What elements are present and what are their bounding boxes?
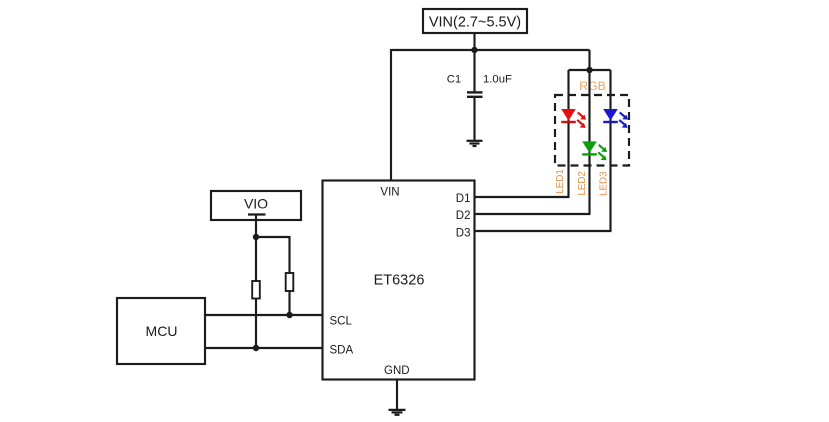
wire VIO stub xyxy=(255,215,257,238)
wire VIN box stub xyxy=(473,33,475,50)
svg-text:VIN: VIN xyxy=(380,187,399,199)
svg-text:D3: D3 xyxy=(456,227,471,239)
svg-text:LED1: LED1 xyxy=(555,169,566,194)
power source box VIO xyxy=(211,191,301,220)
wire VIO to R-left xyxy=(255,237,257,281)
wire top VIN bus xyxy=(391,49,590,51)
svg-text:VIO: VIO xyxy=(244,196,268,212)
wire C1 bottom lead xyxy=(473,97,475,140)
svg-text:VIN(2.7~5.5V): VIN(2.7~5.5V) xyxy=(429,15,521,31)
wire LED anode bus xyxy=(569,69,611,71)
wire SDA net xyxy=(205,347,323,349)
svg-text:LED2: LED2 xyxy=(577,171,588,196)
node junction VIO split xyxy=(253,234,259,240)
svg-text:D1: D1 xyxy=(456,193,471,205)
ground under U1 xyxy=(389,410,406,415)
wire LED feed drop xyxy=(588,50,590,70)
wire GND stub xyxy=(396,380,398,410)
wire VIO branch right xyxy=(256,236,290,238)
IC U1 ET6326 xyxy=(323,181,475,380)
svg-text:D2: D2 xyxy=(456,210,471,222)
svg-text:SDA: SDA xyxy=(330,344,354,356)
wire LED3 cathode run xyxy=(609,70,611,231)
wire R-left to SDA xyxy=(255,299,257,349)
wire R-right to SCL xyxy=(288,291,290,315)
LED D-blue symbol xyxy=(603,109,628,128)
wire C1 top lead xyxy=(473,50,475,92)
svg-text:MCU: MCU xyxy=(146,323,178,339)
power source box VIN xyxy=(423,9,527,33)
wire D2 to LED2 xyxy=(475,213,591,215)
wire drop to U1 VIN pin xyxy=(390,49,392,181)
node junction LED bus xyxy=(586,67,592,73)
svg-text:ET6326: ET6326 xyxy=(374,273,425,289)
wire SCL net xyxy=(205,314,323,316)
svg-text:GND: GND xyxy=(384,365,410,377)
wire D1 to LED1 xyxy=(475,196,570,198)
svg-text:SCL: SCL xyxy=(330,315,353,327)
node junction SCL pull-up xyxy=(286,312,292,318)
wire D3 to LED3 xyxy=(475,230,612,232)
MCU block xyxy=(117,298,205,364)
svg-text:RGB: RGB xyxy=(579,79,605,93)
svg-text:1.0uF: 1.0uF xyxy=(483,74,512,86)
svg-text:C1: C1 xyxy=(447,74,461,86)
svg-text:LED3: LED3 xyxy=(598,171,609,196)
node junction SDA pull-up xyxy=(253,345,259,351)
wire LED1 cathode run xyxy=(567,70,569,197)
capacitor C1 xyxy=(467,92,483,96)
LED D-green symbol xyxy=(582,141,607,160)
node junction VIN/C1 xyxy=(471,47,477,53)
resistor pull-up SDA xyxy=(252,281,260,299)
resistor pull-up SCL xyxy=(286,273,294,291)
RGB module dashed outline xyxy=(555,95,629,166)
LED D-red symbol xyxy=(561,109,586,128)
wire branch to R-right xyxy=(288,236,290,273)
ground under C1 xyxy=(467,141,483,146)
wire LED2 cathode run xyxy=(588,70,590,214)
